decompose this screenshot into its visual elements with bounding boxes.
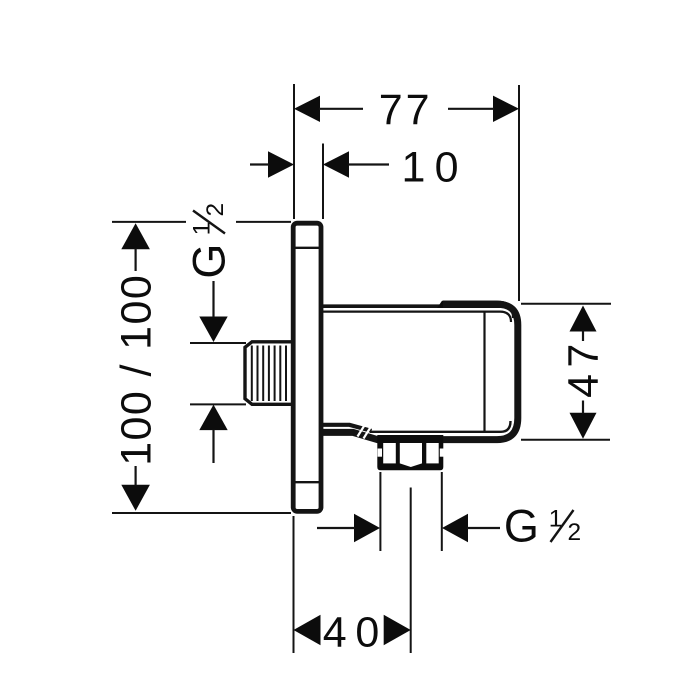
svg-text:2: 2 (202, 203, 229, 217)
svg-text:4: 4 (323, 608, 347, 656)
svg-text:G: G (184, 244, 235, 279)
svg-text:7: 7 (560, 344, 608, 368)
svg-text:0: 0 (355, 608, 379, 656)
svg-text:G: G (504, 501, 539, 552)
svg-text:100 / 100: 100 / 100 (112, 274, 160, 466)
svg-text:2: 2 (568, 519, 582, 546)
svg-text:4: 4 (560, 374, 608, 398)
svg-text:1: 1 (402, 143, 426, 191)
svg-text:0: 0 (435, 143, 459, 191)
svg-text:7: 7 (406, 86, 430, 134)
svg-text:7: 7 (379, 86, 403, 134)
